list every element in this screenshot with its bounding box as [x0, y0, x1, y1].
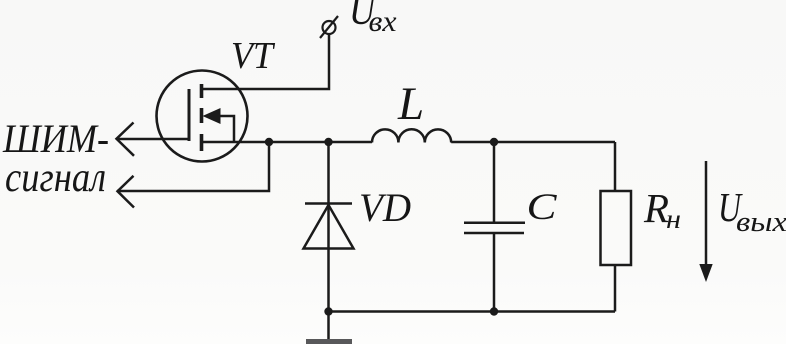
junction diode top	[324, 138, 332, 146]
wire PWM return	[117, 142, 269, 191]
ground	[306, 312, 352, 344]
wire switch node (source to inductor)	[202, 141, 372, 144]
svg-text:VT: VT	[231, 35, 276, 77]
svg-text:C: C	[527, 187, 559, 228]
junction ground node	[324, 307, 332, 315]
arrow PWM to gate	[117, 123, 135, 156]
arrow Uvyh output	[699, 161, 712, 282]
diode VD	[304, 142, 354, 312]
wire bottom return	[329, 310, 616, 313]
wire gate lead	[117, 138, 190, 141]
svg-text:н: н	[666, 204, 681, 234]
inductor L	[372, 129, 451, 142]
svg-text:вх: вх	[369, 5, 398, 38]
svg-text:сигнал: сигнал	[5, 155, 106, 201]
svg-text:VD: VD	[359, 185, 411, 230]
input terminal Uvh	[320, 16, 338, 38]
wire inductor to load	[451, 141, 615, 144]
junction capacitor top	[490, 138, 498, 146]
wire drain to input terminal	[202, 34, 329, 89]
junction capacitor bottom	[490, 307, 498, 315]
svg-text:вых: вых	[736, 207, 786, 238]
capacitor C	[464, 142, 525, 312]
junction source / PWM return	[265, 138, 273, 146]
resistor Rn	[601, 142, 632, 312]
transistor VT (MOSFET in circle)	[157, 71, 248, 162]
svg-text:L: L	[397, 78, 424, 130]
arrow PWM return	[118, 176, 135, 208]
